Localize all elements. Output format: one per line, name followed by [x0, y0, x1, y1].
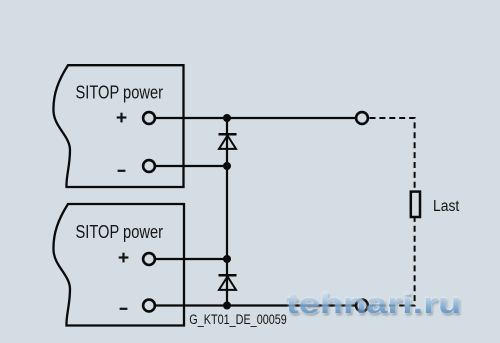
- wire vertical bus: [226, 118, 228, 306]
- svg-text:SITOP power: SITOP power: [76, 222, 164, 242]
- dashed wire - to load: [370, 217, 415, 305]
- terminal - PSU1: [143, 160, 155, 172]
- watermark tehnari.ru: [286, 290, 461, 319]
- power supply box PSU2: [53, 204, 184, 326]
- junction node bus/-2: [223, 302, 231, 310]
- diode V2 (across PSU2): [219, 275, 237, 290]
- label - (PSU1): [118, 170, 126, 172]
- junction node bus/+2: [223, 255, 231, 263]
- resistor load (Last): [411, 192, 420, 217]
- label + (PSU1): [117, 113, 127, 123]
- junction node bus/-1: [223, 162, 231, 170]
- output terminal circle - (right bottom): [356, 300, 368, 312]
- terminal - PSU2: [143, 300, 155, 312]
- dashed wire + to load: [370, 118, 415, 191]
- junction node bus/+1: [223, 114, 231, 122]
- label + (PSU2): [119, 253, 129, 263]
- diode V1 (across PSU1): [219, 134, 237, 149]
- terminal + PSU1: [143, 112, 155, 124]
- label - (PSU2): [120, 308, 128, 310]
- wire - output PSU1 to bus: [149, 165, 227, 167]
- wire + output PSU2 to bus: [149, 258, 227, 260]
- svg-text:SITOP power: SITOP power: [76, 83, 164, 103]
- power supply box PSU1: [53, 65, 183, 187]
- wire - output PSU2 to terminal circle: [149, 304, 362, 306]
- svg-text:Last: Last: [433, 198, 460, 215]
- wire + output PSU1 to terminal circle: [149, 117, 362, 119]
- terminal + PSU2: [143, 253, 155, 265]
- svg-text:G_KT01_DE_00059: G_KT01_DE_00059: [189, 312, 286, 327]
- output terminal circle + (right top): [356, 112, 368, 124]
